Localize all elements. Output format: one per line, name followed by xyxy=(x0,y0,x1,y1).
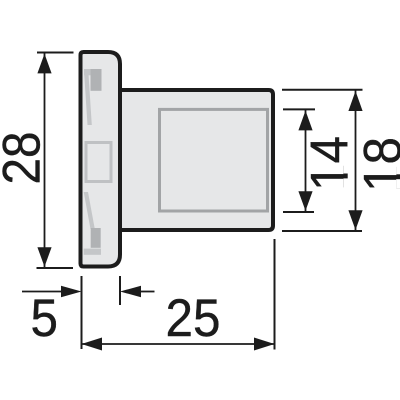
dimension 18: top extension tick xyxy=(282,89,363,91)
svg-text:14: 14 xyxy=(301,136,360,191)
dimension 18: dimension line xyxy=(355,90,357,230)
dimension 5: left arrow tail xyxy=(22,291,61,293)
dimension 5: right arrowhead xyxy=(120,286,141,298)
dimension 18: top arrowhead xyxy=(348,91,362,111)
dimension 14: top arrowhead xyxy=(298,111,312,131)
body (cylinder) xyxy=(120,88,275,232)
dimension 18: bottom arrowhead xyxy=(348,210,362,230)
dimension 5: right arrow tail xyxy=(141,291,155,293)
dimension 28: top arrowhead xyxy=(37,54,51,74)
dimension 28: bottom arrowhead xyxy=(37,247,51,267)
flange detail: top diagonal band xyxy=(84,71,92,125)
dimension 14: top extension tick xyxy=(283,108,315,110)
dimension 14: bottom extension tick xyxy=(283,211,314,213)
flange detail: middle square xyxy=(86,143,111,182)
svg-text:25: 25 xyxy=(166,289,221,348)
flange xyxy=(81,52,121,267)
dimension 28: top extension tick xyxy=(37,52,74,54)
dimension 18: bottom extension tick xyxy=(282,230,362,232)
dimension 5: left extension line xyxy=(81,276,83,349)
svg-text:18: 18 xyxy=(354,137,400,192)
flange detail: bottom bar xyxy=(84,249,101,255)
flange detail: top bar xyxy=(84,69,102,75)
dimension 28: bottom extension tick xyxy=(37,267,74,269)
svg-text:5: 5 xyxy=(31,289,59,348)
dimension 14: bottom arrowhead xyxy=(298,191,312,211)
dimension 14: dimension line xyxy=(305,110,307,212)
flange detail: bottom dark square xyxy=(91,228,101,248)
dimension 25: right extension line xyxy=(274,239,276,350)
dimension 28: dimension line xyxy=(44,53,46,268)
flange detail: bottom diagonal band xyxy=(84,192,95,229)
flange detail: top dark square xyxy=(91,69,102,91)
dimension 5: right extension line xyxy=(119,276,121,305)
dimension 25: left arrowhead xyxy=(82,338,103,351)
dimension 5: left arrowhead xyxy=(61,286,82,298)
dimension 25: dimension line xyxy=(82,343,275,345)
svg-text:28: 28 xyxy=(0,132,52,185)
body inner sleeve rectangle xyxy=(160,109,268,211)
dimension 25: right arrowhead xyxy=(254,338,275,351)
